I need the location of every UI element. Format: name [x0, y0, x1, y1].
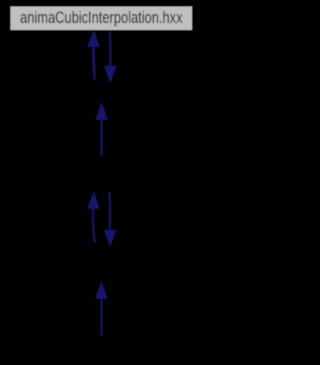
edge arrow down: node1 -> node2 (cycle pair, right): [104, 31, 116, 84]
edge arrow up: node2 -> node1 (cycle pair, left): [87, 29, 99, 79]
edge arrow up: node3 -> node2 (straight): [95, 102, 108, 157]
edge arrow down: node3 -> node4 (cycle pair, right): [104, 192, 117, 247]
svg-text:animaCubicInterpolation.hxx: animaCubicInterpolation.hxx: [20, 9, 183, 27]
node animaCubicInterpolation.hxx (main, grey filled): [10, 6, 193, 31]
edge arrow up: node4 -> node3 (cycle pair, left): [87, 191, 99, 243]
edge arrow up: node5 -> node4 (straight, bottom): [95, 281, 108, 336]
